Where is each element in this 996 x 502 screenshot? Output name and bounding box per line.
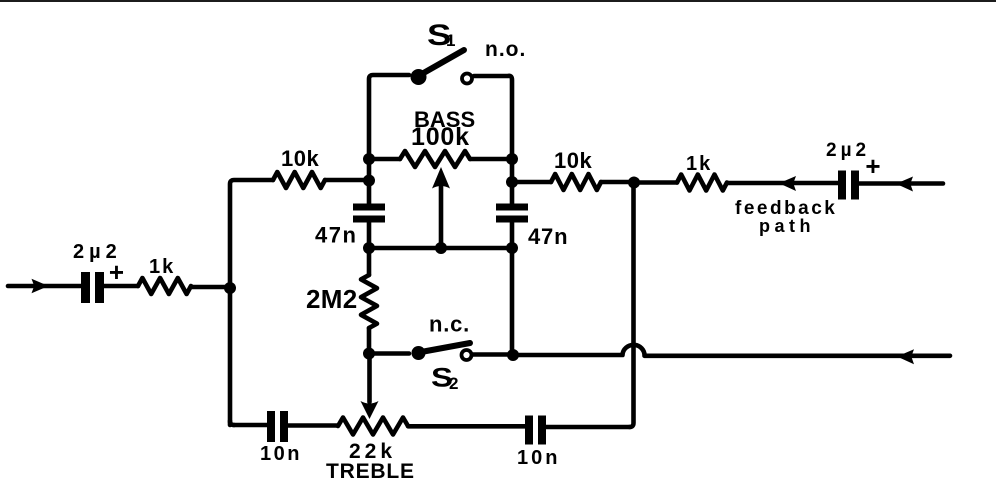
svg-text:10n: 10n (517, 447, 560, 469)
svg-text:n.c.: n.c. (429, 312, 470, 337)
svg-text:1: 1 (446, 31, 455, 50)
svg-text:path: path (759, 216, 815, 236)
svg-text:10k: 10k (281, 146, 319, 171)
svg-text:47n: 47n (528, 224, 568, 249)
svg-text:47n: 47n (315, 223, 357, 248)
svg-text:+: + (865, 151, 880, 181)
svg-text:2: 2 (449, 374, 458, 393)
svg-text:2µ2: 2µ2 (826, 140, 870, 161)
svg-text:n.o.: n.o. (485, 38, 526, 61)
svg-text:10n: 10n (260, 443, 302, 465)
svg-text:10k: 10k (554, 148, 592, 173)
svg-text:+: + (109, 257, 124, 287)
svg-text:1k: 1k (149, 256, 175, 278)
svg-text:TREBLE: TREBLE (326, 460, 415, 483)
svg-text:100k: 100k (411, 123, 470, 151)
svg-text:2M2: 2M2 (306, 284, 357, 314)
svg-text:1k: 1k (686, 153, 712, 175)
